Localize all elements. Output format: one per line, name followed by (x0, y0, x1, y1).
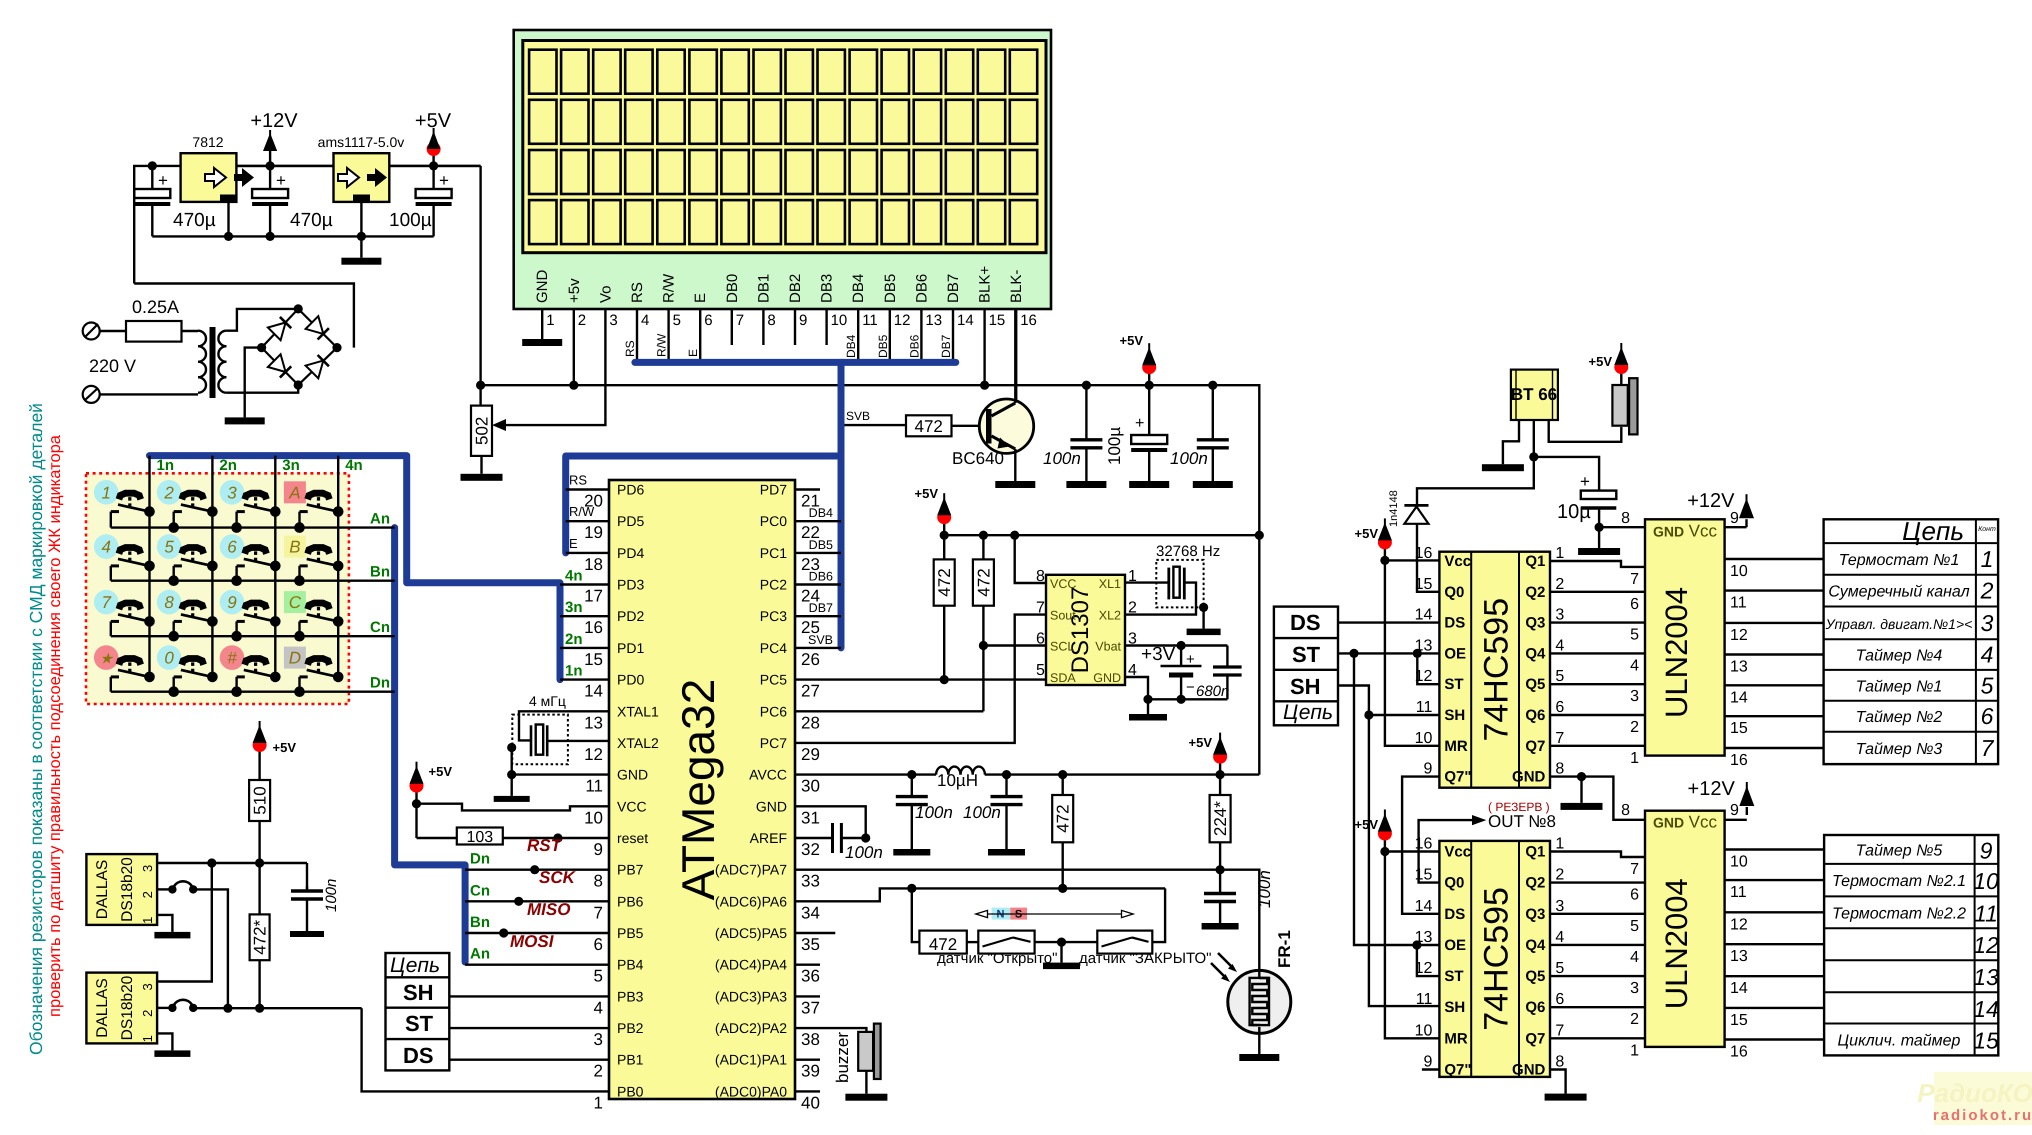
svg-text:−: − (1186, 679, 1195, 696)
wire: BT66 left lead to ground (1503, 420, 1519, 464)
wire: LCD pin3 Vo to pot (504, 309, 605, 425)
wire: keypad row Cn (111, 635, 395, 637)
svg-text:Цепь: Цепь (390, 954, 440, 977)
wire: SH vertical to 595#2 (1369, 715, 1440, 1006)
svg-text:PD2: PD2 (617, 608, 644, 624)
svg-text:PB5: PB5 (617, 925, 644, 941)
LCD module (green board) (514, 30, 1051, 309)
wire: 595#2 Q1 to ULN#2 input (1550, 852, 1645, 858)
wire: GND 595#2 (1550, 1070, 1566, 1094)
svg-text:17: 17 (584, 587, 603, 606)
svg-text:+: + (1135, 415, 1144, 432)
terminal 220V L (83, 323, 100, 340)
svg-text:4: 4 (1555, 637, 1564, 654)
svg-text:SVB: SVB (846, 409, 870, 423)
wire: ULN#2 output 10 to connector (1725, 848, 1825, 850)
battery +3V (1125, 644, 1227, 646)
svg-text:1: 1 (1981, 546, 1994, 572)
svg-text:Vcc: Vcc (1444, 844, 1471, 861)
svg-text:GND: GND (756, 798, 787, 814)
ground: 10u (1578, 548, 1620, 555)
svg-text:Q4: Q4 (1525, 937, 1546, 954)
svg-text:100n: 100n (1043, 449, 1081, 468)
svg-text:9: 9 (1423, 1054, 1432, 1071)
transformer T1 (198, 331, 206, 347)
wire: BT66 right lead (1549, 420, 1622, 442)
svg-text:Q1: Q1 (1525, 553, 1545, 570)
svg-text:ST: ST (405, 1011, 434, 1036)
wire: DB6 stub to bus (795, 583, 841, 585)
wire: LCD pin16 BLK- to BC640 (1015, 309, 1017, 400)
key 1 (94, 480, 119, 505)
wire: ULN#1 output 10 to connector (1725, 558, 1824, 560)
svg-text:DB5: DB5 (876, 334, 890, 358)
svg-text:датчик "Открыто": датчик "Открыто" (937, 950, 1057, 967)
svg-text:220 V: 220 V (89, 356, 136, 376)
wire: SVB stub to bus (795, 647, 841, 649)
svg-text:74HC595: 74HC595 (1477, 598, 1515, 742)
wire: GND 595#1 (1550, 775, 1582, 777)
svg-text:+12V: +12V (1688, 778, 1736, 800)
svg-text:SDA: SDA (1050, 671, 1076, 685)
svg-text:Термостат №2.1: Термостат №2.1 (1832, 873, 1966, 890)
wire: Sout to PC7 (795, 615, 1046, 743)
svg-text:3: 3 (1555, 607, 1564, 624)
svg-text:PD7: PD7 (760, 482, 787, 498)
svg-text:Q6: Q6 (1525, 999, 1545, 1016)
wire: sensor1 pin2 to data net (193, 889, 228, 1008)
svg-text:Цепь: Цепь (1283, 701, 1333, 724)
svg-text:5: 5 (1630, 627, 1639, 644)
svg-text:Bn: Bn (370, 564, 390, 581)
svg-text:28: 28 (801, 713, 820, 732)
svg-text:3: 3 (227, 483, 237, 502)
svg-text:8: 8 (164, 593, 174, 612)
svg-text:(ADC5)PA5: (ADC5)PA5 (715, 925, 787, 941)
svg-text:DALLAS: DALLAS (94, 978, 111, 1037)
wire: data net to MCU PB0 (193, 1007, 361, 1009)
svg-text:Vcc: Vcc (1444, 553, 1471, 570)
wire: (ADC3)PA3 stub (795, 995, 820, 997)
resistor 472 reed (919, 931, 966, 954)
svg-text:MISO: MISO (527, 900, 570, 919)
svg-text:1: 1 (1630, 1042, 1639, 1059)
wire: LCD pin6 E to bus (699, 309, 701, 362)
svg-text:PB6: PB6 (617, 893, 644, 909)
svg-text:Таймер №5: Таймер №5 (1856, 843, 1943, 860)
svg-text:12: 12 (1973, 932, 1999, 958)
wire: ULN#2 output 14 to connector (1725, 975, 1825, 977)
svg-text:DB5: DB5 (882, 274, 899, 303)
svg-text:РадиоКОТ: РадиоКОТ (1917, 1078, 2032, 1108)
svg-text:Q5: Q5 (1525, 676, 1545, 693)
wire: keypad column 3n (274, 456, 276, 677)
wire: reset (503, 837, 609, 839)
svg-text:9: 9 (1423, 761, 1432, 778)
wire: LCD pin15 BLK+ to +5V rail (983, 309, 985, 385)
svg-text:6: 6 (1036, 631, 1045, 648)
photoresistor FR-1 (1228, 970, 1291, 1033)
key C (284, 591, 306, 613)
bus: keypad columns (blue) (150, 456, 561, 680)
svg-text:RS: RS (623, 340, 637, 357)
svg-text:16: 16 (1730, 1044, 1748, 1061)
svg-text:DB5: DB5 (809, 538, 833, 552)
power flag +5V main (429, 161, 438, 170)
capacitor 100n AREF (795, 837, 833, 839)
key B (284, 536, 306, 558)
svg-text:27: 27 (801, 682, 820, 701)
wire: Q7" #2 stub (1422, 1068, 1440, 1070)
wire: E to MCU (566, 552, 609, 554)
svg-text:33: 33 (801, 872, 820, 891)
svg-text:ST: ST (1292, 642, 1321, 667)
svg-text:Vcc: Vcc (1689, 521, 1718, 540)
svg-text:32: 32 (801, 840, 820, 859)
svg-text:10µ: 10µ (1557, 501, 1591, 523)
svg-text:12: 12 (1730, 627, 1748, 644)
svg-text:5: 5 (164, 538, 174, 557)
svg-text:3: 3 (609, 312, 617, 329)
potentiometer 502 (471, 406, 492, 456)
wire: keypad row Bn (111, 580, 395, 582)
svg-text:SCL: SCL (1050, 640, 1074, 654)
svg-text:11: 11 (1730, 595, 1747, 612)
svg-text:2: 2 (1555, 867, 1564, 884)
wire: 595#1 Q2 to ULN#1 input (1550, 591, 1645, 593)
svg-text:6: 6 (1555, 699, 1564, 716)
wire: 5V output (389, 165, 480, 167)
magnet graphic N/S (992, 908, 1011, 920)
svg-text:PD5: PD5 (617, 513, 644, 529)
capacitor 100u output (432, 166, 434, 189)
wire: MCU GND pin11 (512, 773, 609, 775)
svg-text:E: E (569, 536, 578, 551)
wire: DS18b20 #2 pin1 to ground (157, 1033, 172, 1050)
svg-text:472: 472 (1054, 804, 1073, 832)
svg-text:★: ★ (99, 651, 114, 668)
svg-text:11: 11 (585, 777, 603, 796)
svg-text:10: 10 (584, 808, 603, 827)
svg-text:GND: GND (1512, 769, 1546, 786)
wire: 595#2 Q6 to ULN#2 input (1550, 1006, 1645, 1008)
wire: row net Bn to MCU (465, 932, 609, 934)
power flag +5V 595#2 (1384, 836, 1386, 852)
svg-text:5: 5 (673, 312, 681, 329)
svg-text:DB1: DB1 (755, 274, 772, 303)
svg-text:13: 13 (1973, 964, 1999, 990)
wire: XTAL2 (547, 740, 609, 742)
connector table ISP (386, 953, 450, 1070)
wire: ULN#2 Vcc +12V (1725, 819, 1747, 821)
svg-text:100n: 100n (915, 803, 953, 822)
wire: Vcc 595#2 (1385, 850, 1440, 852)
svg-text:Q4: Q4 (1525, 645, 1546, 662)
wire: MCU GND pin31 (795, 806, 866, 838)
svg-text:DB6: DB6 (809, 570, 833, 584)
wire: SVB to base resistor (845, 424, 907, 426)
wire: +5V RTC rail (944, 534, 1259, 536)
thermal switch BT 66 (1511, 370, 1558, 420)
svg-text:5: 5 (1555, 668, 1564, 685)
wire: DS to PB1 (449, 1058, 609, 1060)
wire: column net 3n to MCU (560, 615, 609, 617)
svg-text:2: 2 (1980, 578, 1994, 604)
svg-text:14: 14 (584, 682, 603, 701)
wire: DB4 stub to bus (795, 520, 841, 522)
svg-text:Q1: Q1 (1525, 844, 1545, 861)
buzzer (874, 1024, 881, 1079)
svg-text:10: 10 (1973, 868, 1999, 894)
svg-text:5: 5 (1555, 960, 1564, 977)
svg-text:DB0: DB0 (724, 274, 741, 303)
svg-text:680n: 680n (1196, 683, 1229, 700)
svg-text:100n: 100n (1255, 870, 1274, 908)
svg-text:7: 7 (1630, 571, 1639, 588)
wire: column net 4n to MCU (560, 583, 609, 585)
connector pins DS18b20 #1 pin2 (157, 888, 172, 890)
wire: ULN#2 output 15 to connector (1725, 1007, 1825, 1009)
fuse 0.25A (100, 330, 126, 332)
svg-text:Q0: Q0 (1444, 584, 1464, 601)
svg-text:1: 1 (594, 1093, 603, 1112)
watermark radiokot (1934, 1072, 2032, 1125)
svg-text:PD0: PD0 (617, 672, 644, 688)
svg-text:9: 9 (1730, 510, 1739, 527)
wire: SDA net (943, 606, 945, 680)
svg-text:+5V: +5V (1189, 735, 1213, 750)
svg-text:PC5: PC5 (760, 672, 787, 688)
wire: BT66 node to 10u cap (1534, 457, 1599, 491)
svg-text:472*: 472* (251, 919, 270, 954)
svg-text:4: 4 (1630, 657, 1639, 674)
svg-text:Q3: Q3 (1525, 615, 1545, 632)
wire: ULN#2 output 11 to connector (1725, 879, 1825, 881)
svg-text:16: 16 (1415, 836, 1433, 853)
svg-text:+: + (1580, 472, 1590, 491)
wire: +5V rail (479, 166, 481, 406)
svg-text:7: 7 (736, 312, 744, 329)
svg-text:7: 7 (594, 903, 603, 922)
svg-text:+5V: +5V (1355, 817, 1379, 832)
svg-text:6: 6 (1630, 596, 1639, 613)
wire: keypad column 1n (148, 456, 150, 677)
svg-text:BLK+: BLK+ (977, 266, 994, 303)
keypad dotted border (86, 473, 349, 704)
wire: OE#2 ST net (1412, 940, 1421, 949)
svg-text:MR: MR (1444, 738, 1467, 755)
wire: LCD pin8 stub (762, 309, 764, 345)
wire: ground return rail (152, 235, 433, 237)
svg-text:10: 10 (1730, 854, 1748, 871)
svg-text:2: 2 (578, 312, 586, 329)
svg-text:10µH: 10µH (937, 771, 978, 790)
svg-text:1: 1 (546, 312, 554, 329)
key 2 (157, 480, 182, 505)
svg-text:16: 16 (1730, 752, 1748, 769)
svg-text:6: 6 (1630, 887, 1639, 904)
svg-text:18: 18 (584, 555, 603, 574)
capacitor 100n avcc2 (1005, 775, 1007, 797)
svg-text:An: An (470, 946, 490, 963)
wire: unregulated DC top rail (134, 166, 480, 284)
svg-text:4: 4 (641, 312, 649, 329)
svg-text:PB2: PB2 (617, 1020, 644, 1036)
svg-text:Сумеречный канал: Сумеречный канал (1828, 584, 1969, 601)
svg-text:3: 3 (1630, 980, 1639, 997)
wire: PA6 to sensors (795, 888, 912, 901)
svg-text:4: 4 (101, 538, 110, 557)
wire: sensor1 pin3 net (157, 862, 307, 864)
svg-text:39: 39 (801, 1062, 820, 1081)
reed switch "ЗАКРЫТО" (1097, 931, 1152, 954)
svg-text:4: 4 (1981, 642, 1994, 668)
wire: LCD pin13 DB6 to bus (920, 309, 922, 362)
svg-text:9: 9 (594, 840, 603, 859)
svg-text:472: 472 (915, 417, 943, 436)
wire: DS18b20 #1 pin1 to ground (157, 915, 172, 932)
wire: BC640 collector to ground (1014, 449, 1016, 481)
svg-text:14: 14 (1973, 996, 1999, 1022)
svg-text:+: + (276, 171, 286, 190)
svg-text:4n: 4n (345, 457, 363, 474)
wire: OUT №8 (1419, 820, 1478, 883)
svg-text:XL2: XL2 (1099, 609, 1121, 623)
svg-text:AREF: AREF (750, 830, 787, 846)
wire: VCC RTC (1015, 535, 1046, 583)
svg-text:4 мГц: 4 мГц (529, 693, 566, 709)
wire: ULN#1 output 14 to connector (1725, 684, 1824, 686)
svg-text:1: 1 (1555, 836, 1564, 853)
svg-text:B: B (289, 538, 300, 557)
LCD display area (523, 41, 1046, 253)
wire: keypad column 2n (211, 456, 213, 677)
svg-text:Dn: Dn (470, 851, 490, 868)
svg-text:+5V: +5V (915, 486, 939, 501)
svg-text:6: 6 (704, 312, 712, 329)
svg-text:15: 15 (584, 650, 603, 669)
resistor 224* (1219, 775, 1221, 795)
svg-text:16: 16 (584, 618, 603, 637)
svg-text:3n: 3n (282, 457, 300, 474)
svg-text:ST: ST (1444, 676, 1463, 693)
wire: LCD pin12 DB5 to bus (889, 309, 891, 362)
power flag +5V reset (415, 788, 417, 804)
svg-text:1: 1 (101, 483, 110, 502)
svg-text:Vo: Vo (597, 285, 614, 303)
svg-text:E: E (686, 349, 700, 357)
svg-text:1: 1 (140, 917, 155, 924)
svg-text:7: 7 (1555, 730, 1564, 747)
svg-text:DS: DS (403, 1043, 434, 1068)
sensor DALLAS DS18b20 #2 (86, 973, 157, 1044)
transistor BC640 (952, 425, 989, 427)
svg-text:DS18b20: DS18b20 (119, 857, 136, 922)
svg-text:2: 2 (140, 891, 155, 898)
power flag +12V (266, 161, 275, 170)
svg-text:6: 6 (227, 538, 237, 557)
wire: LCD pin4 RS to bus (636, 309, 638, 362)
wire: (ADC4)PA4 stub (795, 964, 820, 966)
svg-text:DB7: DB7 (809, 601, 833, 615)
wire: 595#2 Q5 to ULN#2 input (1550, 975, 1645, 977)
svg-text:5: 5 (1630, 918, 1639, 935)
svg-text:SH: SH (1444, 999, 1465, 1016)
svg-text:Dn: Dn (370, 675, 390, 692)
svg-text:100n: 100n (1170, 449, 1208, 468)
svg-text:5: 5 (1981, 672, 1994, 698)
svg-text:FR-1: FR-1 (1275, 930, 1294, 968)
svg-text:13: 13 (925, 312, 942, 329)
svg-text:2: 2 (163, 483, 174, 502)
key 0 (157, 645, 182, 670)
svg-text:PC3: PC3 (760, 608, 787, 624)
svg-text:BLK-: BLK- (1008, 270, 1025, 303)
capacitor 680n (1226, 646, 1228, 668)
svg-text:103: 103 (466, 829, 493, 846)
svg-text:PC0: PC0 (760, 513, 787, 529)
svg-text:XTAL2: XTAL2 (617, 735, 659, 751)
svg-text:9: 9 (227, 593, 237, 612)
svg-text:35: 35 (801, 935, 820, 954)
wire: BC640 emitter to BLK- (1014, 309, 1016, 403)
svg-text:8: 8 (1036, 568, 1045, 585)
svg-text:510: 510 (251, 786, 270, 814)
svg-text:12: 12 (894, 312, 911, 329)
svg-text:VCC: VCC (1050, 577, 1076, 591)
svg-text:+5V: +5V (415, 110, 452, 132)
svg-text:+5V: +5V (1120, 333, 1144, 348)
svg-text:2n: 2n (219, 457, 237, 474)
svg-text:SH: SH (1444, 707, 1465, 724)
svg-text:100n: 100n (845, 843, 883, 862)
svg-text:GND: GND (1093, 671, 1121, 685)
svg-text:6: 6 (1555, 991, 1564, 1008)
key # (220, 645, 245, 670)
svg-text:DS1307: DS1307 (1067, 587, 1094, 674)
svg-text:224*: 224* (1211, 801, 1230, 836)
wire: LCD pin7 stub (731, 309, 733, 345)
svg-text:DB7: DB7 (939, 334, 953, 358)
svg-text:GND: GND (534, 270, 551, 304)
svg-text:Q2: Q2 (1525, 584, 1545, 601)
svg-text:ULN2004: ULN2004 (1659, 587, 1694, 718)
svg-text:10: 10 (1415, 1022, 1433, 1039)
svg-text:472: 472 (935, 568, 954, 596)
svg-text:10: 10 (831, 312, 848, 329)
svg-text:GND: GND (1512, 1062, 1546, 1079)
wire: DS (1338, 621, 1439, 623)
svg-text:DS18b20: DS18b20 (119, 975, 136, 1040)
wire: DB7 stub to bus (795, 615, 841, 617)
svg-text:Sout: Sout (1050, 609, 1076, 623)
wire: 472* to data net (258, 960, 260, 1008)
wire: LCD pin5 R/W to bus (667, 309, 669, 362)
key 8 (157, 590, 182, 615)
svg-text:12: 12 (584, 745, 603, 764)
wire: rectifier + feed (134, 284, 354, 348)
svg-text:2: 2 (1555, 576, 1564, 593)
svg-text:5: 5 (594, 967, 603, 986)
svg-text:DS: DS (1444, 615, 1465, 632)
svg-text:PC7: PC7 (760, 735, 787, 751)
svg-text:100µ: 100µ (389, 210, 432, 231)
svg-text:D: D (289, 649, 301, 668)
svg-text:26: 26 (801, 650, 820, 669)
wire: LCD pin9 stub (794, 309, 796, 345)
wire: (ADC1)PA1 stub (795, 1058, 820, 1060)
ground: crystal shield (1199, 603, 1208, 612)
